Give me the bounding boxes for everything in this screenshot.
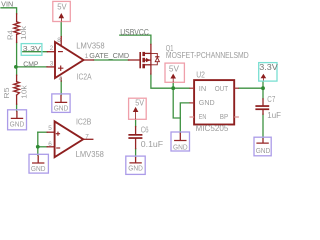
svg-text:GND: GND	[173, 143, 188, 152]
svg-text:C6: C6	[141, 125, 149, 134]
svg-text:OUT: OUT	[215, 84, 229, 93]
svg-text:0.1uF: 0.1uF	[141, 140, 163, 149]
svg-text:USBVCC: USBVCC	[120, 28, 149, 37]
svg-text:MIC5205: MIC5205	[196, 124, 229, 133]
svg-text:GND: GND	[10, 119, 25, 128]
svg-text:1: 1	[85, 53, 89, 60]
svg-text:5V: 5V	[135, 98, 144, 107]
svg-text:LMV358: LMV358	[76, 41, 105, 50]
svg-text:IC2B: IC2B	[76, 117, 91, 126]
svg-text:4: 4	[59, 75, 63, 82]
svg-text:GND: GND	[128, 164, 143, 173]
svg-text:VIN: VIN	[1, 2, 13, 9]
svg-text:BP: BP	[220, 112, 228, 121]
svg-text:GND: GND	[54, 104, 69, 113]
svg-text:GND: GND	[31, 164, 46, 173]
svg-text:GND: GND	[199, 98, 215, 107]
svg-text:LMV358: LMV358	[76, 150, 105, 159]
svg-text:GND: GND	[256, 146, 271, 155]
svg-text:IC2A: IC2A	[77, 73, 92, 82]
svg-text:C7: C7	[267, 95, 275, 104]
svg-text:2: 2	[50, 45, 54, 52]
svg-text:R5: R5	[2, 87, 11, 98]
svg-text:IN: IN	[199, 84, 207, 93]
svg-text:CMP: CMP	[23, 60, 38, 69]
svg-text:U2: U2	[196, 70, 205, 79]
svg-text:5: 5	[48, 125, 52, 132]
svg-text:7: 7	[85, 133, 89, 140]
svg-text:10k: 10k	[19, 85, 28, 99]
svg-text:6: 6	[48, 141, 52, 148]
svg-text:R4: R4	[5, 30, 14, 40]
svg-text:EN: EN	[199, 112, 207, 121]
svg-text:3.3V: 3.3V	[23, 44, 42, 53]
svg-text:8: 8	[57, 37, 61, 44]
svg-text:MOSFET-PCHANNELSMD: MOSFET-PCHANNELSMD	[166, 51, 249, 60]
svg-text:10k: 10k	[19, 26, 28, 40]
svg-text:1uF: 1uF	[267, 111, 281, 120]
svg-text:3: 3	[50, 61, 54, 68]
svg-text:3.3V: 3.3V	[259, 63, 278, 72]
svg-text:GATE_CMD: GATE_CMD	[89, 51, 129, 60]
svg-text:5V: 5V	[169, 65, 180, 74]
svg-text:5V: 5V	[57, 2, 67, 11]
